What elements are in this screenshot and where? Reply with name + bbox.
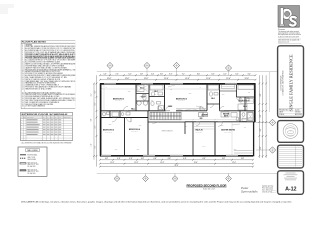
- bottom dimension line 1: [99, 158, 254, 161]
- svg-text:DEMOLISHED: DEMOLISHED: [28, 159, 37, 161]
- top dimension line 1: [99, 74, 256, 77]
- svg-text:2468: 2468: [151, 100, 154, 102]
- bath fixtures upper right: [208, 85, 254, 110]
- door swing 5: [220, 106, 225, 111]
- svg-text:EGR: EGR: [234, 149, 237, 151]
- door swing 12: [237, 97, 241, 101]
- svg-text:7: 7: [21, 134, 22, 136]
- svg-text:6.: 6.: [22, 54, 24, 56]
- svg-text:SD: SD: [154, 94, 156, 96]
- svg-text:7′-0″: 7′-0″: [116, 74, 119, 76]
- digital signature block: [262, 185, 274, 194]
- bath fixtures upper left: [137, 85, 163, 100]
- svg-text:17R: 17R: [159, 114, 161, 116]
- window sill lines bottom: [101, 155, 238, 156]
- interior walls upper band: [136, 84, 255, 111]
- svg-text:12′-4″: 12′-4″: [194, 162, 198, 164]
- svg-text:11'-0" x 12'-6": 11'-0" x 12'-6": [105, 131, 112, 133]
- svg-text:SH+P: SH+P: [202, 146, 205, 148]
- window tag diamond top 2: [146, 69, 148, 75]
- svg-text:Scale: 1/4″ = 1′-0″: Scale: 1/4″ = 1′-0″: [203, 188, 215, 190]
- closet shelving lines: [137, 85, 214, 129]
- svg-text:Symvoulidis: Symvoulidis: [241, 190, 258, 194]
- svg-text:6′-2″: 6′-2″: [129, 74, 132, 76]
- door swing 4: [200, 106, 205, 111]
- svg-text:OPEN TO BELOW: OPEN TO BELOW: [162, 131, 174, 133]
- exterior wall right: [254, 83, 256, 122]
- svg-text:12′-4″: 12′-4″: [134, 162, 138, 164]
- svg-text:12′-6″: 12′-6″: [164, 78, 169, 80]
- svg-text:9'-6": 9'-6": [91, 118, 93, 121]
- svg-text:1. ALL INTERIOR DOORS SHALL BE: 1. ALL INTERIOR DOORS SHALL BE SOLID COR…: [21, 142, 72, 145]
- svg-text:ALL NEW WINDOWS TO BE DUAL GLA: ALL NEW WINDOWS TO BE DUAL GLAZED LOW-E: [25, 91, 60, 94]
- svg-text:8′-6″: 8′-6″: [260, 146, 262, 149]
- svg-text:1401 wilshire blvd, los angele: 1401 wilshire blvd, los angeles CA: [278, 38, 299, 41]
- interior door schedule table: [21, 112, 73, 140]
- svg-text:6′-8″: 6′-8″: [105, 158, 109, 160]
- svg-text:11'-0": 11'-0": [91, 143, 93, 147]
- bottom dimension line 2: [99, 162, 254, 165]
- svg-text:9′-2″: 9′-2″: [95, 125, 97, 128]
- svg-text:11'-0" x 12'-6": 11'-0" x 12'-6": [196, 131, 203, 133]
- svg-text:BEDROOM #5: BEDROOM #5: [103, 130, 114, 132]
- svg-text:VERIFY ALL DIMENSIONS AND EXIS: VERIFY ALL DIMENSIONS AND EXISTING CONDI…: [25, 45, 83, 48]
- svg-text:6′-8″: 6′-8″: [241, 158, 245, 160]
- svg-text:8′-6″: 8′-6″: [260, 128, 262, 131]
- svg-text:6′-0″: 6′-0″: [236, 74, 239, 76]
- svg-text:EGR: EGR: [115, 149, 118, 151]
- right dimension lines: [258, 75, 267, 158]
- PS logo: [278, 6, 300, 28]
- svg-text:Psomas: Psomas: [278, 29, 285, 31]
- interior walls lower band: [125, 111, 216, 156]
- annotation leaders: [152, 85, 240, 125]
- svg-text:8′-6″: 8′-6″: [260, 114, 262, 117]
- svg-text:2868: 2868: [221, 125, 224, 127]
- svg-text:6′-8″: 6′-8″: [222, 158, 226, 160]
- svg-text:9′-2″: 9′-2″: [95, 145, 97, 148]
- svg-text:3′-6″: 3′-6″: [160, 74, 163, 76]
- svg-text:7.: 7.: [22, 56, 24, 58]
- svg-text:3.: 3.: [22, 48, 24, 50]
- staircase: [150, 110, 181, 119]
- svg-text:07/07/21: 07/07/21: [271, 190, 276, 192]
- master bath fixtures: [221, 111, 253, 122]
- svg-text:MASTER BEDRM: MASTER BEDRM: [221, 129, 235, 132]
- firm name: [278, 27, 300, 29]
- door swing 9: [218, 122, 223, 127]
- svg-text:6′-2″: 6′-2″: [224, 74, 227, 76]
- svg-text:1316 SELBY AVENUE: 1316 SELBY AVENUE: [280, 76, 283, 91]
- svg-text:5′-8″: 5′-8″: [140, 74, 143, 76]
- svg-text:1: 1: [21, 119, 22, 121]
- svg-text:8′-6″: 8′-6″: [260, 93, 262, 96]
- svg-text:6′-4″: 6′-4″: [248, 74, 251, 76]
- window tag diamond top 1: [109, 69, 111, 75]
- svg-text:6′-8″: 6′-8″: [141, 158, 145, 160]
- hall tag circles: [137, 101, 141, 105]
- stamp box: [278, 121, 304, 143]
- svg-text:HALL: HALL: [131, 107, 135, 110]
- right closet walls: [222, 85, 254, 111]
- svg-text:12′-4″: 12′-4″: [110, 162, 114, 164]
- drawing title PROPOSED SECOND FLOOR: [187, 185, 227, 190]
- svg-text:A-12: A-12: [285, 186, 296, 192]
- svg-text:5: 5: [21, 129, 22, 131]
- mid bath divider and fixtures: [149, 97, 165, 110]
- firm address lines: [278, 30, 302, 44]
- exterior wall bottom: [100, 155, 253, 157]
- window tag diamond right 1: [256, 122, 269, 124]
- svg-text:EXISTING WALL: EXISTING WALL: [28, 153, 38, 156]
- svg-text:LIC: LIC: [290, 131, 292, 133]
- svg-text:6′-0″: 6′-0″: [212, 74, 215, 76]
- interior dim string lower band: [149, 119, 253, 120]
- hall walls: [101, 111, 255, 122]
- svg-text:FLOOR PLAN NOTES: FLOOR PLAN NOTES: [22, 41, 47, 44]
- svg-text:11'-0" x 12'-6": 11'-0" x 12'-6": [225, 131, 232, 133]
- svg-text:EGR: EGR: [137, 149, 140, 151]
- svg-text:12′-6″: 12′-6″: [144, 78, 149, 80]
- svg-text:6: 6: [21, 132, 22, 134]
- svg-text:12′-4″: 12′-4″: [232, 162, 236, 164]
- svg-text:12′-6″: 12′-6″: [245, 78, 250, 80]
- window tag diamond top 4: [228, 71, 230, 75]
- svg-text:RM: RM: [24, 117, 26, 119]
- svg-text:5′-4″: 5′-4″: [151, 74, 154, 76]
- svg-text:A1: A1: [105, 86, 107, 89]
- svg-text:6′-0″: 6′-0″: [169, 74, 172, 76]
- revision box: [278, 145, 304, 168]
- svg-text:12′-4″: 12′-4″: [160, 162, 164, 164]
- bedroom3 closet doors: [176, 109, 206, 111]
- svg-text:5.: 5.: [22, 52, 24, 54]
- svg-text:11'-0" x 12'-6": 11'-0" x 12'-6": [131, 131, 138, 133]
- laundry machines: [199, 113, 203, 117]
- svg-text:6′-8″: 6′-8″: [117, 158, 121, 160]
- project title box: [278, 46, 304, 118]
- svg-text:BEDROOM #4: BEDROOM #4: [129, 128, 140, 131]
- svg-text:11'-0" x 12'-6": 11'-0" x 12'-6": [115, 100, 122, 102]
- svg-text:1.: 1.: [22, 44, 24, 46]
- svg-text:B2: B2: [185, 126, 187, 128]
- svg-text:www.psomas.com: www.psomas.com: [278, 41, 290, 43]
- svg-text:H: H: [47, 117, 48, 119]
- svg-text:GENERAL: GENERAL: [25, 43, 32, 46]
- exterior wall top: [100, 83, 256, 85]
- guardrail at open to below: [148, 121, 185, 123]
- svg-text:2: 2: [21, 122, 22, 124]
- svg-text:6′-8″: 6′-8″: [153, 158, 157, 160]
- window tag diamond bottom 2: [145, 173, 147, 176]
- svg-text:3: 3: [21, 124, 22, 126]
- svg-text:6′-8″: 6′-8″: [202, 158, 206, 160]
- svg-text:Digitally signed by: Digitally signed by: [262, 185, 274, 188]
- door swing 1: [124, 106, 129, 111]
- svg-text:2668: 2668: [128, 91, 131, 93]
- door swing 2: [158, 106, 163, 111]
- viewport top edge line: [97, 71, 278, 73]
- svg-text:9.: 9.: [22, 60, 24, 62]
- svg-text:2468: 2468: [139, 125, 142, 127]
- window sill lines top: [104, 83, 237, 84]
- svg-text:2.: 2.: [22, 46, 24, 48]
- window tag diamond top 3: [176, 69, 178, 75]
- svg-text:12′-6″: 12′-6″: [226, 78, 231, 80]
- svg-text:4.: 4.: [22, 50, 24, 52]
- sheet box: [278, 171, 304, 195]
- svg-text:8′-6″: 8′-6″: [197, 74, 200, 76]
- svg-text:9′-2″: 9′-2″: [95, 90, 97, 93]
- window tag diamond bottom 1: [116, 173, 118, 176]
- door swing 3: [166, 106, 171, 111]
- window tag diamond bottom 3: [174, 173, 176, 176]
- wall legend box: [18, 147, 47, 176]
- signature Peter Symvoulidis: [241, 186, 258, 194]
- faint fold mark top-left: [0, 4, 14, 14]
- svg-text:TY: TY: [55, 117, 57, 119]
- svg-text:T-24: T-24: [170, 89, 173, 91]
- svg-text:2668: 2668: [109, 124, 112, 126]
- svg-text:EQ: EQ: [244, 127, 246, 129]
- door swing 6: [112, 118, 117, 123]
- left dimension lines: [91, 75, 98, 166]
- svg-text:6′-8″: 6′-8″: [183, 158, 187, 160]
- extra right dim line: [269, 72, 271, 112]
- exterior wall left: [100, 83, 102, 156]
- svg-text:WALL LEGEND: WALL LEGEND: [27, 149, 38, 152]
- svg-text:SINGLE FAMILY RESIDENCE: SINGLE FAMILY RESIDENCE: [289, 54, 294, 111]
- hall bath fixtures: [103, 111, 131, 118]
- window tag diamond bottom 4: [228, 173, 230, 176]
- viewport bottom edge line: [97, 172, 278, 174]
- svg-text:12′-6″: 12′-6″: [206, 78, 211, 80]
- door swing 11: [210, 104, 214, 108]
- svg-text:BEDROOM #2: BEDROOM #2: [113, 98, 124, 100]
- svg-text:A2: A2: [199, 86, 201, 89]
- svg-text:7′-2″: 7′-2″: [182, 74, 185, 76]
- svg-text:BEDROOM #3: BEDROOM #3: [176, 98, 187, 100]
- svg-text:4: 4: [21, 127, 22, 129]
- svg-text:9′-2″: 9′-2″: [95, 102, 97, 105]
- svg-text:12′-6″: 12′-6″: [107, 78, 112, 80]
- svg-text:6′-8″: 6′-8″: [168, 158, 172, 160]
- svg-text:LAUNDRY: LAUNDRY: [201, 114, 208, 117]
- top dimension line 2: [99, 78, 256, 81]
- svg-text:WALL TO BE: WALL TO BE: [28, 156, 36, 159]
- svg-text:BA-3: BA-3: [211, 97, 215, 100]
- svg-text:TH: TH: [51, 117, 53, 119]
- svg-text:12'-2": 12'-2": [91, 93, 93, 97]
- svg-text:12′-6″: 12′-6″: [185, 78, 190, 80]
- bottom overall dimension line: [99, 165, 254, 168]
- door swing 8: [196, 122, 200, 126]
- svg-text:11.: 11.: [22, 64, 24, 66]
- svg-text:2468: 2468: [222, 94, 225, 96]
- door swing 7: [127, 118, 132, 123]
- svg-text:TMP: TMP: [248, 92, 251, 94]
- svg-text:DISCLAIMER: All renderings, si: DISCLAIMER: All renderings, site plans, …: [21, 200, 293, 203]
- master closet lines bottom right: [234, 151, 253, 154]
- door swing 10: [140, 94, 144, 98]
- svg-text:12′-6″: 12′-6″: [125, 78, 130, 80]
- svg-text:2668: 2668: [189, 93, 192, 95]
- internal dimension line upper rooms: [101, 85, 254, 156]
- svg-text:6′-8″: 6′-8″: [129, 158, 133, 160]
- svg-text:62′-8″: 62′-8″: [175, 165, 179, 167]
- window tag diamond right 2: [256, 149, 269, 151]
- master bath shower: [248, 113, 254, 121]
- svg-text:11'-0" x 12'-6": 11'-0" x 12'-6": [178, 100, 185, 102]
- svg-text:BA-2: BA-2: [154, 90, 158, 93]
- svg-text:8.: 8.: [22, 58, 24, 60]
- svg-text:5′-6″: 5′-6″: [104, 74, 107, 76]
- scattered annotations: [105, 86, 250, 151]
